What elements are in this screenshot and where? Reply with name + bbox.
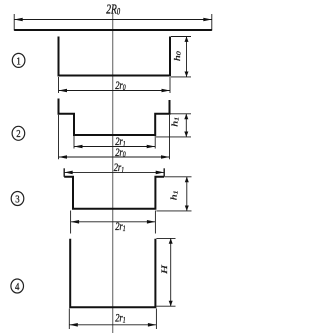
dim 2R0 right extension line	[211, 14, 213, 31]
stage-2 dim 2r0 left arrow	[59, 155, 68, 159]
stage number 3 circle	[11, 192, 24, 206]
svg-text:1: 1	[16, 55, 20, 67]
stage-1 dim 2r0 left arrow	[59, 89, 68, 93]
blank sheet line (diameter 2R0)	[14, 29, 212, 31]
dim h0 dimension line	[186, 37, 188, 77]
stage-1 dim 2r0 right extension line	[169, 77, 171, 93]
stage-1 cup profile (walls and bottom)	[59, 37, 171, 76]
stage-3 top dim 2r1 left arrow	[64, 171, 73, 175]
stage-2 dim 2r1 right arrow	[147, 145, 156, 149]
stage-3 cup profile (ledges, walls, bottom)	[64, 177, 164, 209]
dim 2R0 dimension line	[14, 19, 212, 21]
dim H bottom arrow	[169, 301, 173, 306]
stage-2 dim 2r1 right extension line	[154, 136, 156, 149]
dim H top extension line	[156, 237, 175, 239]
stage-3 dim h1 top extension line	[165, 176, 192, 178]
stage-3 top dim 2r1 right arrow	[156, 171, 165, 175]
svg-text:2: 2	[16, 128, 20, 140]
stage-3 right lip stub	[163, 168, 165, 177]
stage-2 dim h1 top extension line	[171, 113, 192, 115]
stage-1 dim 2r0 right arrow	[162, 89, 171, 93]
stage-4 dim 2r1 dimension line	[69, 324, 156, 326]
dim H dimension line	[170, 238, 172, 306]
stage-3 dim h1 top arrow	[185, 177, 189, 182]
stage-1 dim 2r0 left extension line	[58, 77, 60, 93]
dim h0 top extension line	[171, 36, 191, 38]
stage-3 left lip stub	[63, 168, 65, 177]
vertical centerline	[112, 14, 114, 334]
dim h0 bottom extension line	[171, 76, 191, 78]
dim 2R0 right arrow	[203, 18, 212, 22]
stage-2 dim 2r0 left extension line	[58, 115, 60, 159]
stage-2 dim h1 bottom arrow	[184, 132, 188, 137]
stage-2 dim 2r1 left extension line	[73, 136, 75, 149]
stage-1 dim 2r0 dimension line	[59, 90, 171, 92]
dim 2R0 left extension line	[13, 14, 15, 31]
stage-2 dim 2r1 left arrow	[74, 145, 83, 149]
stage-4 dim 2r1 right extension line	[155, 309, 157, 330]
stage-4 dim 2r1 right arrow	[148, 323, 157, 327]
stage-2 dim 2r0 right arrow	[161, 155, 170, 159]
stage-4 top dim 2r1 left extension line	[70, 211, 72, 234]
dim h0 top arrow	[185, 37, 189, 42]
stage-2 dim 2r1 dimension line	[74, 146, 155, 148]
stage-3 top dim 2r1 dimension line	[64, 171, 164, 173]
stage-4 deep cup profile (walls and bottom)	[70, 239, 155, 307]
stage-3 dim h1 bottom arrow	[185, 206, 189, 211]
stage number 2 circle	[12, 126, 25, 140]
stage-4 dim 2r1 left extension line	[68, 309, 70, 330]
dim H top arrow	[169, 238, 173, 243]
svg-text:4: 4	[15, 281, 19, 293]
svg-text:H: H	[161, 265, 170, 275]
stage-2 stepped cup profile	[59, 99, 170, 136]
stage-2 dim h1 bottom extension line	[156, 136, 191, 138]
stage-3 dim h1 dimension line	[186, 177, 188, 211]
stage-4 top dim 2r1 dimension line	[71, 221, 156, 223]
dim h0 bottom arrow	[185, 72, 189, 77]
dim 2R0 left arrow	[14, 18, 23, 22]
svg-text:3: 3	[15, 194, 19, 206]
stage number 4 circle	[11, 279, 24, 293]
stage-2 dim h1 dimension line	[185, 114, 187, 137]
dim H bottom extension line	[156, 305, 175, 307]
stage-3 dim h1 bottom extension line	[156, 210, 191, 212]
stage-2 dim h1 top arrow	[184, 114, 188, 119]
stage-4 top dim 2r1 left arrow	[71, 220, 80, 224]
stage-4 dim 2r1 left arrow	[69, 323, 78, 327]
stage number 1 circle	[12, 53, 25, 67]
stage-2 dim 2r0 right extension line	[169, 115, 171, 159]
stage-2 dim 2r0 dimension line	[59, 156, 170, 158]
stage-4 top dim 2r1 right extension line	[154, 211, 156, 234]
stage-4 top dim 2r1 right arrow	[147, 220, 156, 224]
